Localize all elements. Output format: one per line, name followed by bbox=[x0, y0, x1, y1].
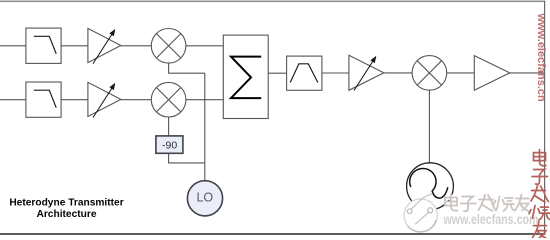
wire I input bbox=[0, 45, 26, 47]
wire VGA1 to mixer M1 bbox=[121, 45, 152, 47]
char zi vertical bbox=[532, 170, 548, 185]
bandpass filter BPF box bbox=[287, 56, 322, 90]
wire PA output bbox=[510, 72, 545, 74]
bottom border bbox=[0, 233, 545, 235]
svg-text:-90: -90 bbox=[162, 139, 177, 151]
variable gain amplifier VGA3 bbox=[349, 55, 384, 90]
power amplifier PA bbox=[474, 56, 510, 91]
mixer M1 bbox=[151, 29, 186, 64]
wire LPF1 to VGA1 bbox=[61, 45, 88, 47]
watermark logo bond down bbox=[415, 212, 428, 224]
VGA3 gain arrow bbox=[354, 56, 376, 90]
wire summer to BPF bbox=[268, 72, 286, 74]
VGA1 gain arrow bbox=[93, 29, 115, 63]
VGA2 gain arrow bbox=[93, 83, 115, 117]
LO vertical riser bbox=[204, 73, 206, 181]
watermark logo bond up tail bbox=[411, 194, 432, 209]
watermark logo left node bbox=[407, 209, 412, 214]
phase shifter -90 box bbox=[156, 136, 183, 153]
wire VGA2 to mixer M2 bbox=[121, 99, 152, 101]
wire -90 box to LO riser bbox=[169, 153, 205, 163]
LO wire to M1: M1 bottom down, across, joins LO vertical bbox=[169, 63, 205, 73]
wire M3 to PA bbox=[447, 72, 475, 74]
svg-text:LO: LO bbox=[196, 190, 213, 204]
variable gain amplifier VGA2 bbox=[88, 82, 121, 116]
wire M2 bottom to -90 box bbox=[168, 117, 170, 136]
wire M1 to summer bbox=[186, 45, 223, 47]
BPF response symbol bbox=[290, 64, 318, 83]
wire LPF2 to VGA2 bbox=[61, 99, 88, 101]
char fa vertical bbox=[531, 186, 549, 203]
mixer M2 bbox=[151, 82, 186, 117]
svg-text:www.elecfans.cn: www.elecfans.cn bbox=[535, 13, 547, 103]
wire M2 to summer bbox=[186, 99, 223, 101]
LPF1 response symbol bbox=[34, 36, 56, 54]
mixer M3 bbox=[412, 56, 447, 91]
wire BPF to VGA3 bbox=[322, 72, 349, 74]
lowpass filter LPF1 box bbox=[26, 28, 61, 63]
wire M3 to oscillator bbox=[428, 90, 430, 163]
char you vertical bbox=[533, 222, 547, 239]
oscillator sine wave bbox=[410, 168, 448, 198]
local oscillator LO bbox=[187, 181, 222, 216]
svg-text:www.elecfans.com: www.elecfans.com bbox=[443, 211, 539, 227]
top border bbox=[0, 0, 545, 2]
second local oscillator symbol bbox=[407, 163, 454, 210]
char shao vertical bbox=[529, 206, 550, 221]
sigma glyph bbox=[231, 57, 261, 99]
watermark logo shadow arc bbox=[408, 220, 437, 232]
svg-text:Architecture: Architecture bbox=[36, 209, 96, 220]
lowpass filter LPF2 box bbox=[26, 82, 61, 117]
variable gain amplifier VGA1 bbox=[88, 28, 121, 62]
watermark logo right node bbox=[428, 208, 433, 213]
svg-text:Heterodyne Transmitter: Heterodyne Transmitter bbox=[9, 198, 123, 209]
char dian vertical bbox=[534, 150, 547, 166]
wire Q input bbox=[0, 99, 26, 101]
right-edge vertical watermark chinese chars bbox=[529, 150, 550, 239]
right border bbox=[544, 1, 546, 235]
wire VGA3 to mixer M3 bbox=[384, 72, 412, 74]
LPF2 response symbol bbox=[34, 90, 56, 108]
watermark logo big circle bbox=[404, 199, 437, 232]
summer box bbox=[223, 35, 268, 118]
